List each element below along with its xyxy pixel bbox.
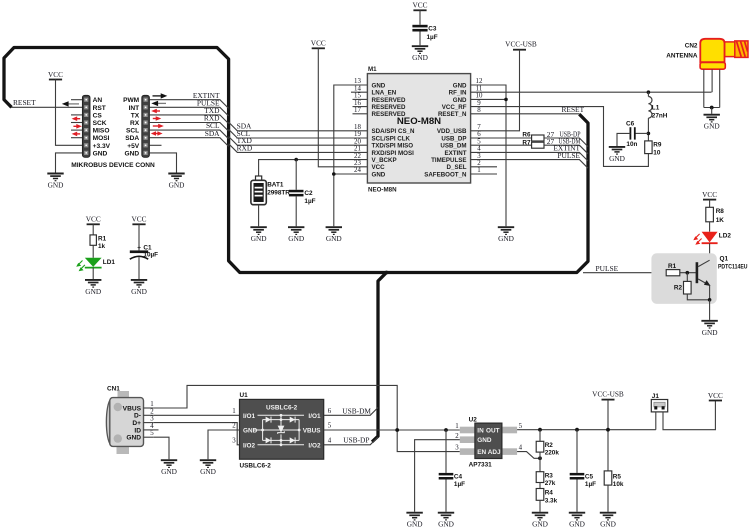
svg-text:PDTC114EU: PDTC114EU — [718, 263, 748, 270]
wire R1 to LD1 — [92, 245, 94, 257]
svg-text:MIKROBUS DEVICE CONN: MIKROBUS DEVICE CONN — [71, 162, 155, 169]
svg-text:R1: R1 — [98, 236, 107, 243]
wire VCC-USB to NEO pin7 VDD_USB — [471, 50, 520, 131]
wire U1 GND to ground — [208, 430, 240, 459]
wire VCC to R8 — [709, 200, 711, 208]
svg-text:PULSE: PULSE — [557, 151, 580, 160]
wire LD1 to ground — [92, 268, 94, 279]
wire net RESET from NEO pin8 into bus — [471, 105, 585, 114]
svg-text:+5V: +5V — [127, 143, 140, 150]
svg-text:1: 1 — [455, 423, 459, 430]
ground (R4) — [532, 513, 548, 529]
svg-text:10k: 10k — [613, 481, 624, 488]
node VCC-USB (bottom) — [592, 389, 624, 399]
connector CN1 (USB mini) — [106, 386, 158, 454]
svg-text:1µF: 1µF — [304, 198, 315, 205]
node VCC (LD1 branch) — [86, 215, 101, 225]
svg-text:C6: C6 — [626, 121, 635, 128]
svg-text:R5: R5 — [613, 473, 622, 480]
svg-text:I/O2: I/O2 — [243, 442, 256, 449]
connector P1 mikrobus left header — [71, 95, 111, 157]
svg-text:12: 12 — [476, 78, 483, 85]
svg-text:RX: RX — [130, 120, 140, 127]
svg-text:4: 4 — [519, 445, 523, 452]
wire C6 to ground — [617, 133, 630, 146]
svg-text:BAT1: BAT1 — [267, 182, 284, 189]
LED LD2 (red) — [693, 232, 731, 245]
svg-text:USB-DP: USB-DP — [343, 435, 369, 444]
svg-text:5: 5 — [519, 423, 523, 430]
svg-text:R8: R8 — [716, 208, 725, 215]
svg-text:VCC: VCC — [372, 164, 386, 171]
node VCC (C1 branch) — [131, 215, 146, 225]
wire NEO pin12 GND rail right — [471, 85, 506, 226]
svg-text:C4: C4 — [454, 473, 463, 480]
wire net PULSE into bus — [149, 98, 228, 116]
svg-text:TX: TX — [131, 112, 140, 119]
svg-text:I/O1: I/O1 — [243, 413, 256, 420]
svg-text:2998TR: 2998TR — [267, 190, 290, 197]
wire C3 to ground — [419, 32, 421, 46]
junction VBUS/C4 — [444, 428, 448, 432]
junction antenna shield — [710, 106, 714, 110]
wire LD2 to Q1 collector — [709, 243, 711, 260]
svg-text:MOSI: MOSI — [93, 135, 110, 142]
svg-text:VCC-USB: VCC-USB — [505, 39, 537, 48]
wire VCC to NEO pin23 — [318, 48, 367, 167]
svg-text:CN2: CN2 — [685, 43, 698, 50]
svg-text:3: 3 — [150, 416, 154, 423]
junction OUT/R2 — [538, 428, 542, 432]
svg-text:21: 21 — [354, 146, 361, 153]
svg-text:R7: R7 — [522, 139, 531, 146]
svg-text:USB_DP: USB_DP — [441, 135, 466, 142]
wire NEO pin16 stub — [353, 106, 368, 108]
svg-text:1µF: 1µF — [585, 481, 596, 488]
junction Q1 emitter node — [708, 298, 712, 302]
label MIKROBUS DEVICE CONN — [71, 162, 155, 169]
svg-text:10: 10 — [476, 93, 483, 100]
wire R8 to LD2 — [709, 222, 711, 232]
svg-text:27k: 27k — [545, 480, 556, 487]
svg-text:1K: 1K — [716, 217, 725, 224]
svg-text:20: 20 — [354, 138, 361, 145]
svg-text:CS: CS — [93, 112, 103, 119]
svg-text:SCK: SCK — [93, 120, 107, 127]
wire NEO pin24 GND — [334, 173, 368, 175]
wire VCC to C1 — [138, 224, 140, 250]
svg-text:GND: GND — [126, 435, 141, 442]
svg-text:3: 3 — [455, 445, 459, 452]
svg-text:15: 15 — [354, 93, 361, 100]
capacitor C4 1uF — [439, 430, 465, 488]
svg-text:USB_DM: USB_DM — [440, 143, 466, 150]
jumper J1 — [651, 393, 667, 412]
wire net SDA out of bus to NEO pin18 — [229, 122, 368, 131]
svg-text:GND: GND — [243, 428, 258, 435]
svg-text:GND: GND — [453, 97, 467, 104]
svg-text:RESET: RESET — [13, 98, 36, 107]
ground (C6) — [609, 147, 625, 163]
node VCC (NEO supply) — [311, 39, 326, 49]
svg-text:OUT: OUT — [486, 427, 500, 434]
svg-text:19: 19 — [354, 131, 361, 138]
ground (C2) — [288, 227, 304, 243]
svg-text:RXD/SPI MOSI: RXD/SPI MOSI — [372, 150, 415, 157]
IC U2 AP7331 regulator — [455, 416, 522, 468]
svg-text:1: 1 — [232, 408, 236, 415]
wire U2 ADJ to divider — [517, 452, 540, 459]
arrow SDA bidir (red) — [151, 131, 163, 136]
wire C1 to ground — [138, 257, 140, 279]
svg-text:RESERVED: RESERVED — [372, 97, 406, 104]
wire net RXD out of bus to NEO pin21 — [229, 143, 368, 152]
svg-text:D-: D- — [134, 413, 141, 420]
wire NEO pin17 stub — [353, 113, 368, 115]
wire net SCL into bus — [149, 121, 228, 139]
wire CN1 D+ to U1 I/O2 — [154, 423, 240, 445]
svg-text:9: 9 — [477, 100, 481, 107]
transistor Q1 symbol — [696, 260, 711, 300]
battery BAT1 2998TR — [251, 176, 290, 205]
wire right header GND to ground — [149, 153, 176, 173]
svg-text:3: 3 — [232, 438, 236, 445]
arrow RX out (red) — [153, 116, 162, 121]
wire +5V stub — [149, 144, 161, 146]
svg-text:R2: R2 — [545, 442, 554, 449]
wire net SCL out of bus to NEO pin19 — [229, 129, 368, 138]
ground (R5) — [600, 513, 616, 529]
resistor R9 10 — [645, 141, 662, 157]
LED LD1 (green) — [76, 258, 115, 271]
svg-text:D+: D+ — [132, 420, 141, 427]
wire U2 OUT rail — [517, 429, 656, 431]
svg-text:LD2: LD2 — [719, 233, 732, 240]
svg-text:RESERVED: RESERVED — [372, 111, 406, 118]
svg-text:1k: 1k — [98, 243, 106, 250]
svg-text:VCC-USB: VCC-USB — [592, 389, 624, 398]
wire NEO pin14 LNA_EN stub — [351, 91, 367, 93]
ground (U2) — [406, 513, 422, 529]
IC U1 USBLC6-2 — [232, 392, 332, 469]
svg-text:USBLC6-2: USBLC6-2 — [240, 463, 272, 470]
wire U1 VBUS rail to U2 IN — [324, 429, 460, 431]
ground (C3) — [412, 46, 428, 62]
ground (LD1) — [85, 280, 101, 296]
svg-text:R1: R1 — [668, 263, 677, 270]
svg-text:7: 7 — [477, 124, 481, 131]
svg-text:VBUS: VBUS — [123, 405, 142, 412]
svg-text:3: 3 — [477, 153, 481, 160]
resistor R7 27 — [522, 137, 554, 148]
svg-text:ANTENNA: ANTENNA — [666, 53, 698, 60]
svg-text:14: 14 — [354, 85, 361, 92]
resistor R1 (Q1 base) — [666, 263, 680, 276]
svg-text:U1: U1 — [240, 392, 249, 399]
svg-text:TIMEPULSE: TIMEPULSE — [431, 157, 466, 164]
junction on bus bottom edge — [385, 271, 389, 275]
junction OUT/VCC-USB — [606, 428, 610, 432]
wire left header GND to ground — [56, 153, 83, 173]
svg-text:VCC_RF: VCC_RF — [442, 104, 467, 111]
junction ADJ/R2/R3 — [538, 456, 542, 460]
wire VCC-USB to R5 — [607, 400, 609, 471]
wire net TXD out of bus to NEO pin20 — [229, 136, 368, 145]
wire emitter to ground — [709, 300, 711, 320]
arrow SCL out (red) — [153, 124, 164, 129]
module M1 NEO-M8N — [354, 66, 483, 193]
junction V_BCKP / C2 — [294, 158, 298, 162]
svg-text:LD1: LD1 — [103, 259, 116, 266]
capacitor C3 1uF — [412, 25, 437, 41]
ground (C1) — [131, 280, 147, 296]
svg-text:1: 1 — [150, 401, 154, 408]
svg-text:VBUS: VBUS — [303, 428, 321, 435]
wire net USB-DP into bus — [544, 129, 588, 146]
svg-text:11: 11 — [476, 85, 483, 92]
svg-text:SDA/SPI CS_N: SDA/SPI CS_N — [372, 128, 416, 135]
wire NEO pin15 stub — [353, 98, 368, 100]
svg-text:5: 5 — [328, 423, 332, 430]
capacitor C5 1uF — [570, 430, 596, 488]
arrow PWM/EXTINT out (black) — [153, 93, 168, 98]
svg-text:PULSE: PULSE — [596, 264, 619, 273]
resistor R2 (Q1 base-emitter) — [674, 273, 710, 300]
svg-text:10µF: 10µF — [143, 252, 158, 259]
svg-text:18: 18 — [354, 124, 361, 131]
wire VBUS from CN1 to U2 IN/EN — [154, 385, 460, 451]
transistor Q1 PDTC114EU (digital transistor block) — [651, 253, 747, 304]
wire NEO pin10 GND — [471, 98, 506, 100]
svg-text:24: 24 — [354, 167, 361, 174]
svg-text:R9: R9 — [653, 142, 662, 149]
wire C4 to ground — [445, 480, 447, 512]
resistor R2 220k — [536, 430, 559, 472]
svg-text:NEO-M8N: NEO-M8N — [368, 186, 397, 193]
inductor L1 27nH — [648, 92, 667, 119]
ground (U1) — [200, 460, 216, 476]
capacitor C1 10uF (polarized) — [130, 244, 158, 259]
svg-text:2: 2 — [232, 423, 236, 430]
ground (right header) — [168, 174, 184, 190]
wire VCC to C3 — [419, 10, 421, 24]
svg-text:V_BCKP: V_BCKP — [372, 157, 397, 164]
svg-text:5: 5 — [477, 138, 481, 145]
arrow INT/PULSE in (black) — [151, 101, 166, 106]
wire R1 to base — [680, 272, 696, 274]
svg-text:R4: R4 — [545, 490, 554, 497]
svg-text:6: 6 — [477, 131, 481, 138]
junction RF_IN / L1 — [647, 90, 651, 94]
capacitor C2 1uF — [289, 190, 316, 205]
svg-text:4: 4 — [150, 423, 154, 430]
wire net USB-DM into bus — [544, 137, 588, 154]
svg-text:1µF: 1µF — [454, 481, 465, 488]
junction L1/C6/R9 — [647, 132, 651, 136]
svg-text:R3: R3 — [545, 473, 554, 480]
ground (Q1) — [701, 321, 717, 337]
svg-text:RXD: RXD — [237, 143, 253, 152]
wire NEO pin5 USB_DM to R7 — [471, 144, 532, 146]
svg-text:2: 2 — [477, 160, 481, 167]
resistor R5 10k — [604, 471, 624, 488]
wire NEO pin11 RF_IN to antenna — [471, 91, 712, 93]
svg-text:10: 10 — [653, 149, 661, 156]
svg-text:USBLC6-2: USBLC6-2 — [266, 405, 298, 412]
node VCC (C3 branch) — [412, 1, 427, 11]
node VCC-USB (top) — [505, 39, 537, 49]
svg-text:RESET: RESET — [562, 105, 585, 114]
wire net USB-DP from U1 into bus — [324, 435, 378, 445]
svg-text:GND: GND — [372, 82, 386, 89]
svg-text:I/O2: I/O2 — [308, 442, 321, 449]
svg-text:SCL: SCL — [126, 128, 139, 135]
wire net PULSE from bus to Q1 — [583, 264, 666, 273]
node VCC (LED LD2 branch) — [702, 190, 717, 200]
svg-text:I/O1: I/O1 — [308, 413, 321, 420]
junction Q1 base node — [686, 271, 690, 275]
svg-text:TXD/SPI MISO: TXD/SPI MISO — [372, 143, 414, 150]
svg-text:2: 2 — [455, 433, 459, 440]
connector CN2 ANTENNA (SMA) — [666, 39, 748, 108]
ground (C5) — [569, 513, 585, 529]
wire net USB-DM from U1 into bus — [324, 406, 378, 415]
wire bus branch: USB-DM/USB-DP to U1 — [372, 273, 387, 442]
svg-text:U2: U2 — [469, 416, 478, 423]
svg-text:RF_IN: RF_IN — [449, 90, 467, 97]
svg-text:6: 6 — [328, 408, 332, 415]
svg-text:L1: L1 — [652, 105, 660, 112]
svg-text:INT: INT — [129, 105, 140, 112]
svg-text:27nH: 27nH — [652, 112, 668, 119]
resistor R4 3.3k — [536, 489, 557, 512]
svg-text:8: 8 — [477, 107, 481, 114]
svg-text:R6: R6 — [522, 132, 531, 139]
wire NEO pin9 VCC_RF to R9 — [471, 107, 649, 167]
ground (NEO GND left) — [326, 227, 342, 243]
wire bus: main thick loop (RESET/EXTINT/PULSE/TXD/RXD/SCL/SDA routing) — [4, 48, 588, 273]
svg-text:10n: 10n — [626, 141, 637, 148]
svg-text:D_SEL: D_SEL — [447, 164, 467, 171]
svg-text:RST: RST — [93, 105, 106, 112]
wire NEO pin6 USB_DP to R6 — [471, 137, 532, 139]
svg-text:4: 4 — [328, 438, 332, 445]
node VCC (mikrobus 3.3V supply) — [48, 70, 63, 80]
wire net TXD into bus — [149, 106, 228, 124]
svg-text:GND: GND — [125, 150, 140, 157]
svg-text:SAFEBOOT_N: SAFEBOOT_N — [424, 171, 467, 178]
svg-text:MISO: MISO — [93, 128, 110, 135]
junction pin10 GND — [504, 98, 508, 102]
wire net PULSE from NEO pin3 TIMEPULSE into bus — [471, 151, 588, 168]
svg-text:SDA: SDA — [125, 135, 139, 142]
svg-text:EXTINT: EXTINT — [444, 150, 466, 157]
arrow MOSI in (red) — [72, 132, 81, 137]
svg-text:22: 22 — [354, 153, 361, 160]
svg-text:RESERVED: RESERVED — [372, 104, 406, 111]
svg-text:SCL/SPI CLK: SCL/SPI CLK — [372, 135, 411, 142]
svg-text:GND: GND — [453, 82, 467, 89]
wire C5 to ground — [576, 480, 578, 512]
ground (BAT1) — [250, 227, 266, 243]
arrow RST in (black) — [62, 101, 79, 106]
wire CN1 D- to U1 I/O1 — [154, 414, 240, 416]
svg-text:ID: ID — [134, 427, 141, 434]
wire V_BCKP to C2 — [295, 160, 297, 190]
svg-text:R2: R2 — [674, 285, 683, 292]
wire RESET from bus to RST pin — [11, 98, 82, 107]
svg-text:17: 17 — [354, 107, 361, 114]
svg-text:C1: C1 — [143, 244, 152, 251]
svg-text:16: 16 — [354, 100, 361, 107]
wire C2 to ground — [295, 196, 297, 226]
svg-text:+3.3V: +3.3V — [93, 143, 111, 150]
ground (CN1) — [161, 460, 177, 476]
svg-text:USB-DM: USB-DM — [342, 406, 371, 415]
svg-text:1µF: 1µF — [427, 34, 438, 41]
svg-text:+: + — [137, 244, 141, 251]
resistor R6 27 — [522, 130, 554, 141]
wire net SDA into bus — [149, 129, 228, 147]
svg-text:3.3k: 3.3k — [545, 498, 558, 505]
svg-text:C2: C2 — [304, 190, 313, 197]
svg-text:EN: EN — [477, 449, 486, 456]
wire U2 GND to ground — [415, 440, 460, 512]
svg-text:M1: M1 — [368, 66, 377, 73]
arrow TX in (red) — [151, 109, 160, 114]
svg-text:23: 23 — [354, 160, 361, 167]
svg-text:AP7331: AP7331 — [469, 461, 493, 468]
svg-text:PWM: PWM — [123, 97, 140, 104]
wire J1 left pin to OUT rail — [655, 412, 657, 430]
svg-text:5: 5 — [150, 430, 154, 437]
wire net RXD into bus — [149, 114, 228, 132]
resistor R3 27k — [536, 472, 556, 489]
svg-text:1: 1 — [477, 167, 481, 174]
svg-text:Q1: Q1 — [720, 256, 729, 263]
wire antenna shield to ground — [711, 108, 713, 114]
svg-text:VDD_USB: VDD_USB — [437, 128, 467, 135]
junction OUT/C5 — [575, 428, 579, 432]
resistor R1 1k — [90, 235, 107, 250]
capacitor C6 10n — [626, 121, 648, 149]
wire NEO pin13 GND rail — [334, 85, 368, 226]
svg-text:GND: GND — [477, 437, 492, 444]
svg-text:C3: C3 — [428, 26, 437, 33]
junction VBUS/CN1 — [395, 428, 399, 432]
ground (C4) — [438, 513, 454, 529]
wire L1 to C6/R9 node — [647, 118, 649, 141]
wire R5 to ground — [607, 485, 609, 512]
arrow SCK in (red) — [72, 116, 81, 121]
svg-text:13: 13 — [354, 78, 361, 85]
ground (left header) — [47, 174, 63, 190]
wire NEO pin22 V_BCKP to battery — [259, 160, 368, 179]
svg-text:IN: IN — [477, 427, 484, 434]
ground (antenna) — [704, 115, 720, 131]
wire NEO pin1 SAFEBOOT_N stub — [471, 173, 497, 175]
junction pin24 GND — [332, 172, 336, 176]
svg-text:220k: 220k — [545, 450, 560, 457]
wire net EXTINT into bus — [149, 91, 228, 109]
svg-text:4: 4 — [477, 146, 481, 153]
svg-text:ADJ: ADJ — [488, 449, 501, 456]
connector P2 mikrobus right header — [123, 95, 149, 157]
wire VCC to R1 — [92, 224, 94, 235]
svg-text:2: 2 — [150, 408, 154, 415]
wire net EXTINT from NEO pin4 into bus — [471, 144, 588, 161]
wire J1 right pin to VCC — [663, 401, 715, 430]
